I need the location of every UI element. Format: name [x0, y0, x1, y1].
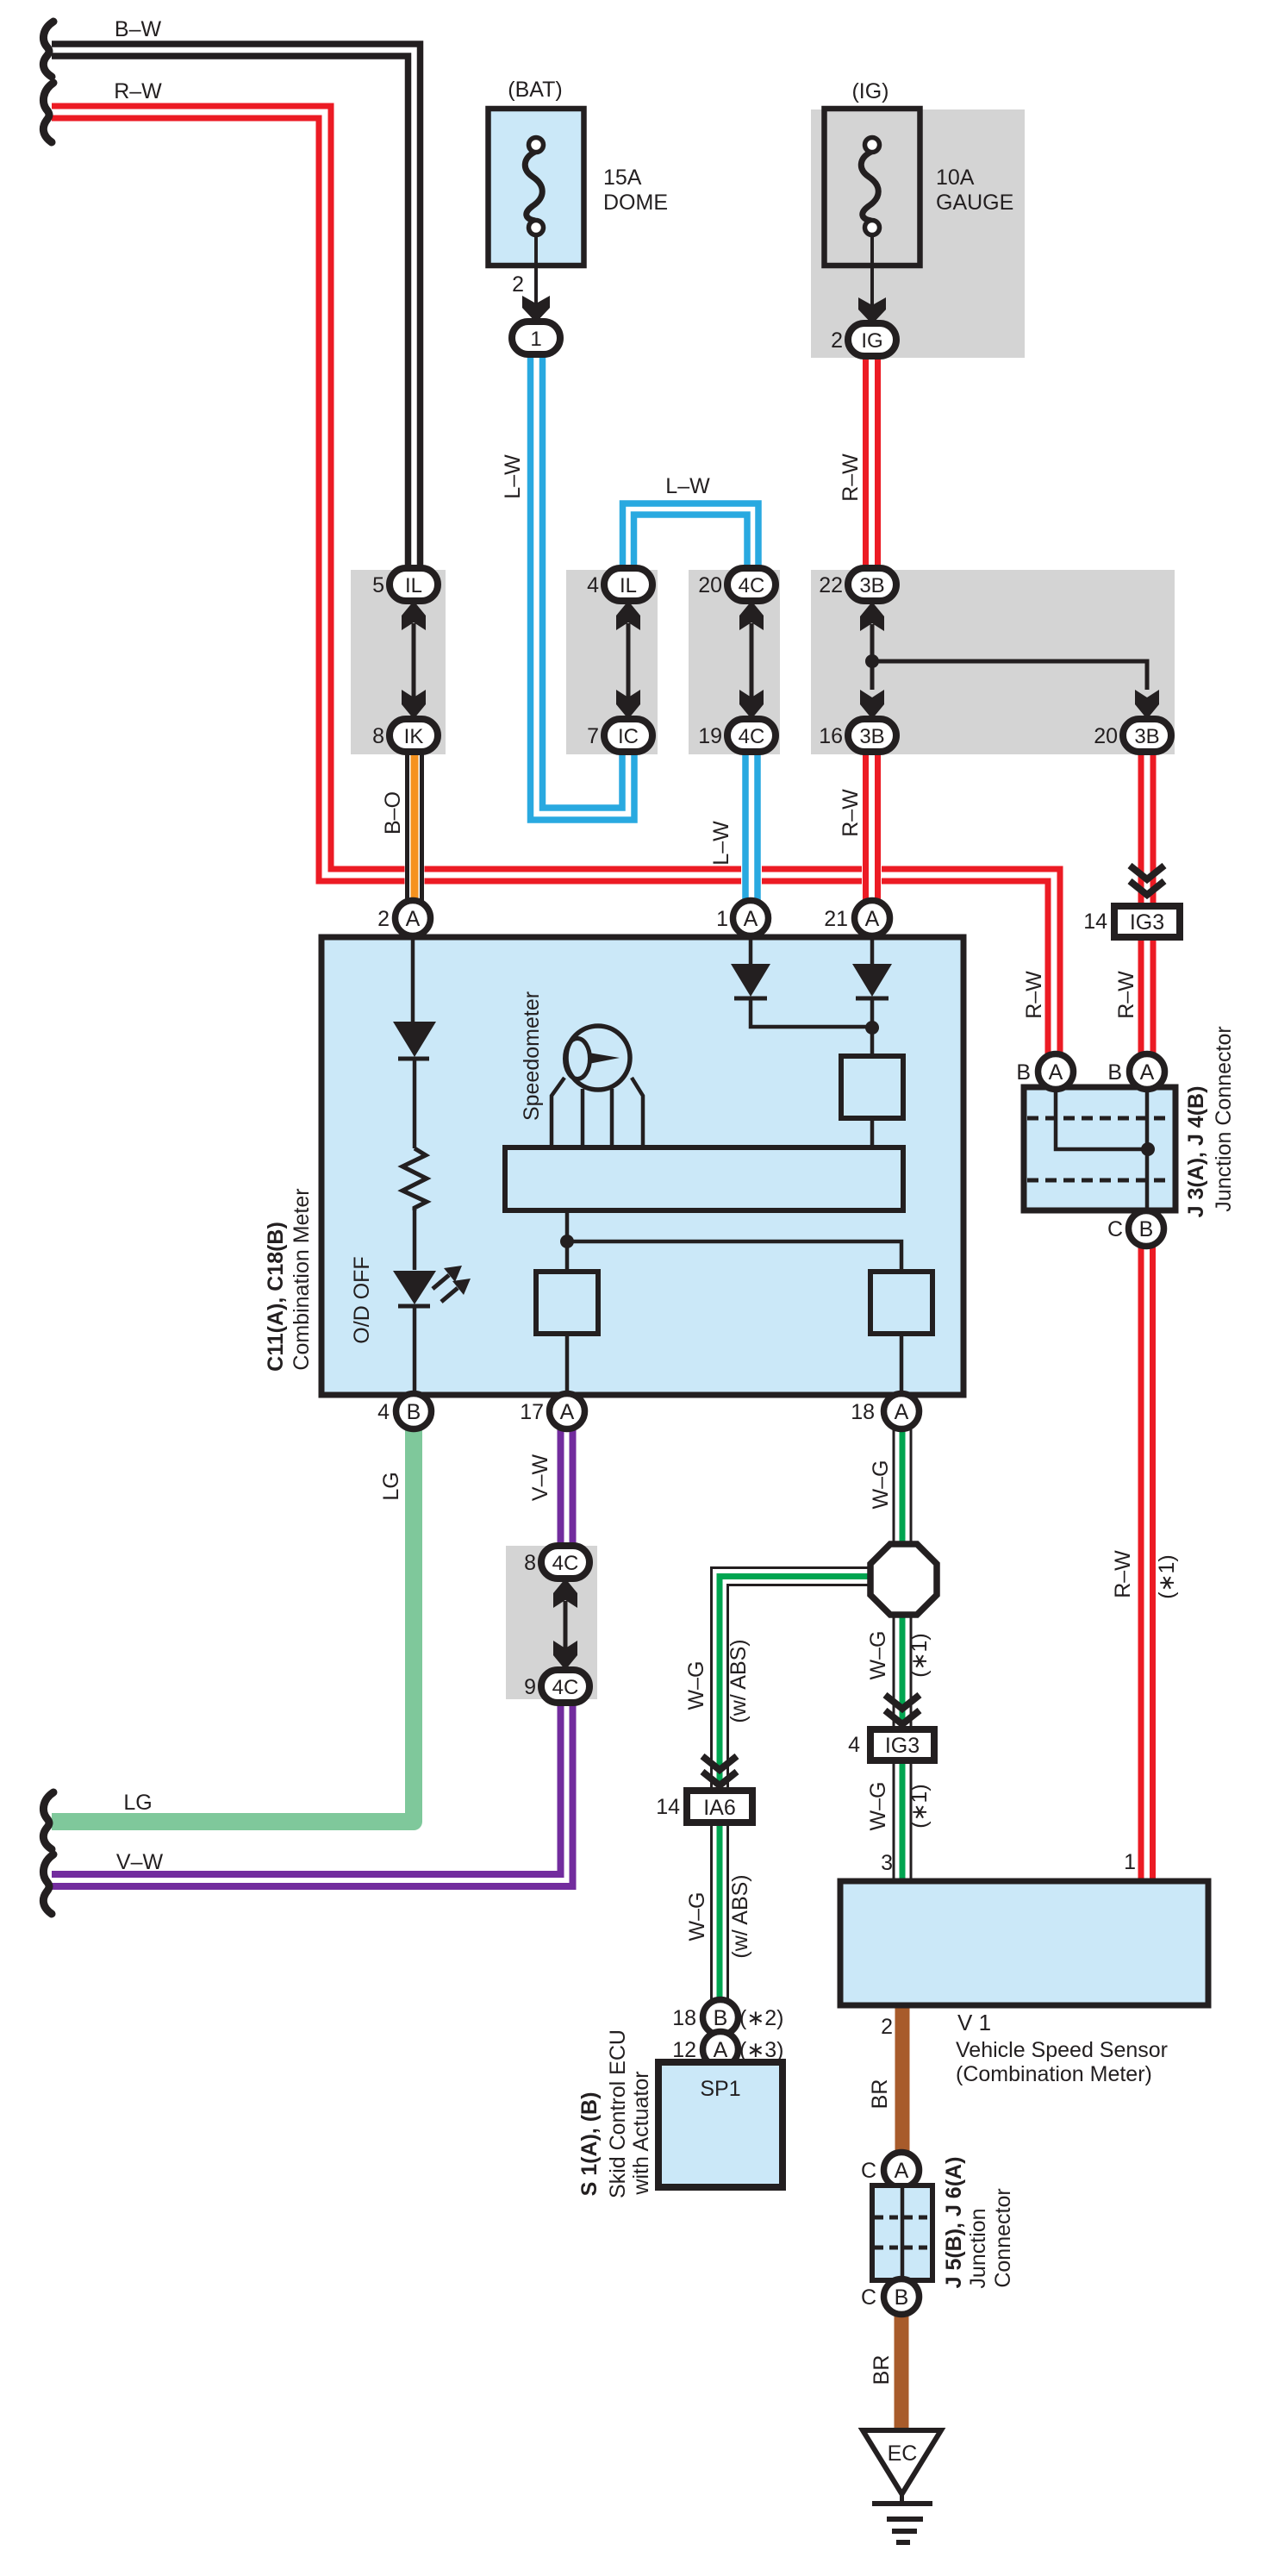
- connector 20 3B: [1123, 719, 1171, 752]
- brace wire break LG: [43, 1792, 53, 1849]
- svg-text:O/D OFF: O/D OFF: [350, 1256, 374, 1343]
- svg-text:A: A: [1049, 1060, 1063, 1085]
- svg-text:BR: BR: [870, 2355, 894, 2385]
- svg-text:GAUGE: GAUGE: [936, 191, 1013, 215]
- svg-text:Combination Meter: Combination Meter: [290, 1188, 314, 1370]
- svg-text:R–W: R–W: [1114, 971, 1138, 1019]
- meter pin 21 A: [855, 901, 890, 936]
- gray highlight box behind fuse (IG): [811, 109, 1025, 358]
- meter pin 18 A: [884, 1394, 920, 1429]
- svg-text:(∗1): (∗1): [1155, 1554, 1179, 1599]
- page-ref chevron above 14 IG3: [1130, 866, 1164, 879]
- svg-text:J 3(A), J 4(B): J 3(A), J 4(B): [1184, 1086, 1208, 1218]
- meter pin 4 B: [396, 1394, 432, 1429]
- svg-text:C11(A), C18(B): C11(A), C18(B): [264, 1222, 288, 1372]
- svg-text:R–W: R–W: [839, 789, 863, 837]
- svg-text:Speedometer: Speedometer: [520, 991, 544, 1121]
- connector 20 4C: [727, 568, 776, 601]
- brace wire break V-W: [43, 1854, 53, 1914]
- svg-text:15A: 15A: [603, 166, 642, 190]
- wire B-W pair from left brace down to connector 5 IL: [52, 44, 421, 570]
- wire meter pin 2A to diode D1: [411, 937, 415, 1022]
- svg-text:(Combination Meter): (Combination Meter): [956, 2062, 1152, 2086]
- svg-text:W–G: W–G: [866, 1782, 890, 1831]
- connector 16 3B: [848, 719, 896, 752]
- svg-text:5: 5: [372, 573, 384, 597]
- svg-text:IG3: IG3: [1130, 910, 1164, 935]
- wire V-W pair from connector 9 4C down then left to brace: [52, 1703, 573, 1886]
- wire resistor to LED: [413, 1210, 417, 1270]
- svg-text:18: 18: [851, 1400, 875, 1424]
- svg-text:18: 18: [672, 2006, 696, 2030]
- page-ref box 14 IG3: [1114, 906, 1180, 937]
- svg-text:DOME: DOME: [603, 191, 668, 215]
- svg-text:W–G: W–G: [866, 1631, 890, 1680]
- svg-text:L–W: L–W: [501, 454, 525, 499]
- diode D1 in meter illumination branch: [393, 1022, 436, 1057]
- svg-text:9: 9: [524, 1675, 536, 1699]
- connector 19 4C: [727, 719, 776, 752]
- svg-text:V 1: V 1: [957, 2010, 991, 2035]
- svg-text:4C: 4C: [739, 725, 765, 748]
- svg-text:C: C: [1107, 1217, 1123, 1241]
- svg-text:8: 8: [524, 1551, 536, 1575]
- svg-text:C: C: [861, 2159, 876, 2183]
- wire W-G branch from octagon left side down to skid control ECU pin 18 B: [712, 1568, 872, 2000]
- svg-text:(IG): (IG): [851, 79, 889, 103]
- svg-text:1: 1: [716, 907, 728, 931]
- svg-text:R–W: R–W: [1022, 971, 1046, 1019]
- svg-text:Junction: Junction: [966, 2208, 990, 2288]
- svg-text:Connector: Connector: [991, 2188, 1015, 2287]
- wire diode D2 to node J1: [751, 998, 872, 1027]
- svg-text:Skid Control ECU: Skid Control ECU: [606, 2029, 630, 2198]
- wire R-W pair from junction connector pin C(B) down to sensor V1 pin 1: [1138, 1247, 1144, 1881]
- gray highlight box behind connectors 8 4C / 9 4C: [506, 1546, 597, 1699]
- wire from fuse GAUGE to oval IG with arrow: [870, 266, 874, 312]
- combination meter C11(A) C18(B) box: [321, 937, 963, 1395]
- wire node J2 branch to block B3: [567, 1241, 901, 1272]
- junction connector pin B(A) left: [1038, 1054, 1074, 1090]
- svg-text:14: 14: [1083, 910, 1107, 934]
- svg-text:B–O: B–O: [381, 791, 405, 835]
- svg-text:(∗3): (∗3): [739, 2038, 784, 2062]
- diode D3 under pin 21A: [852, 964, 892, 997]
- meter block B3 lower right: [870, 1272, 932, 1334]
- svg-text:W–G: W–G: [685, 1892, 709, 1941]
- svg-text:2: 2: [831, 328, 843, 353]
- skid control ECU pin 18 B (*2): [703, 2000, 739, 2035]
- wire block B3 to meter pin 18A: [900, 1334, 904, 1396]
- svg-text:4: 4: [587, 573, 599, 597]
- svg-text:7: 7: [587, 724, 599, 748]
- svg-text:1: 1: [1124, 1850, 1136, 1874]
- wire circuit bar down with node J2: [565, 1210, 570, 1272]
- wire LG from meter pin 4 B down and left to brace: [52, 1429, 414, 1822]
- LED O/D OFF indicator: [393, 1271, 436, 1304]
- wire BR from junction connector J6 pin C(B) down to ground EC: [895, 2313, 909, 2433]
- wire from fuse DOME to oval 1 with arrow: [534, 266, 538, 312]
- svg-text:(w/ ABS): (w/ ABS): [728, 1874, 752, 1958]
- svg-text:IG3: IG3: [885, 1734, 920, 1758]
- gray highlight box behind connectors 20 4C / 19 4C: [689, 570, 780, 754]
- svg-text:22: 22: [819, 573, 843, 597]
- svg-text:8: 8: [372, 724, 384, 748]
- fuse 10A GAUGE (IG): [825, 109, 920, 266]
- svg-text:LG: LG: [379, 1472, 403, 1500]
- arrow pair between connectors 4 IL and 7 IC: [616, 601, 640, 630]
- junction connector pin C(B): [1129, 1211, 1164, 1247]
- meter block B2 lower left: [536, 1272, 598, 1334]
- wire block B2 to meter pin 17A: [565, 1334, 570, 1396]
- page-ref chevron above 4 IG3: [885, 1695, 920, 1709]
- arrow pair between connectors 8 4C and 9 4C: [553, 1579, 577, 1608]
- svg-text:(BAT): (BAT): [508, 78, 562, 102]
- page-ref box 14 IA6: [687, 1791, 752, 1823]
- wire W-G from meter pin 18 A down to noise-filter octagon: [893, 1429, 895, 1545]
- meter pin 17 A: [550, 1394, 585, 1429]
- svg-text:R–W: R–W: [1111, 1550, 1135, 1598]
- svg-text:3B: 3B: [1134, 725, 1159, 748]
- svg-text:20: 20: [698, 573, 722, 597]
- svg-text:(w/ ABS): (w/ ABS): [726, 1639, 751, 1723]
- svg-text:A: A: [895, 2159, 909, 2183]
- svg-text:4C: 4C: [739, 574, 765, 597]
- ground symbol bars: [900, 2494, 904, 2503]
- svg-text:A: A: [865, 907, 880, 931]
- svg-text:C: C: [861, 2285, 876, 2310]
- svg-text:Vehicle Speed Sensor: Vehicle Speed Sensor: [956, 2038, 1168, 2062]
- svg-text:3B: 3B: [859, 725, 884, 748]
- connector 5 IL: [390, 568, 438, 601]
- brace wire break R-W: [43, 83, 53, 142]
- speedometer gauge symbol: [566, 1026, 630, 1090]
- svg-text:A: A: [744, 907, 758, 931]
- wire diode D3 down to node J1: [870, 998, 875, 1056]
- svg-text:B: B: [1016, 1060, 1031, 1085]
- svg-text:2: 2: [881, 2015, 893, 2039]
- connector 7 IC: [604, 719, 652, 752]
- svg-text:17: 17: [520, 1400, 544, 1424]
- connector 9 4C: [541, 1670, 589, 1703]
- wire meter pin 21A to diode D3: [870, 937, 875, 964]
- svg-text:LG: LG: [123, 1791, 152, 1815]
- connector 4 IL: [604, 568, 652, 601]
- connector oval 1 below fuse DOME: [512, 322, 560, 354]
- brace wire break B-W: [43, 22, 53, 77]
- connector 22 3B: [848, 568, 896, 601]
- svg-text:2: 2: [512, 272, 524, 297]
- svg-text:R–W: R–W: [839, 453, 863, 502]
- svg-text:4C: 4C: [552, 1676, 579, 1699]
- svg-text:IC: IC: [618, 725, 639, 748]
- gray highlight box behind connectors 5 IL / 8 IK: [351, 570, 446, 754]
- svg-text:2: 2: [377, 907, 390, 931]
- skid control ECU pin 12 A (*3): [703, 2032, 739, 2067]
- svg-text:B–W: B–W: [115, 17, 162, 41]
- junction connector pin C(B) lower: [884, 2279, 920, 2315]
- meter pin 2 A: [396, 901, 431, 936]
- svg-text:W–G: W–G: [869, 1460, 893, 1510]
- meter internal circuit bar: [505, 1147, 903, 1210]
- svg-text:SP1: SP1: [700, 2077, 740, 2101]
- wire BR from sensor V1 pin 2 down to junction connector J5 pin C(A): [895, 2005, 910, 2154]
- wire L-W pair from connector 19 4C down to meter pin 1 A: [741, 753, 762, 902]
- wire V-W pair from meter pin 17 A down to connector 8 4C: [558, 1429, 564, 1547]
- svg-text:10A: 10A: [936, 166, 975, 190]
- svg-text:A: A: [1140, 1060, 1155, 1085]
- wire R-W pair from fuse GAUGE oval IG down to connector 22 3B: [863, 356, 869, 569]
- wire L-W loop from connector 4 IL up over to connector 20 4C: [623, 503, 759, 570]
- svg-text:J 5(B), J 6(A): J 5(B), J 6(A): [942, 2157, 966, 2289]
- svg-text:V–W: V–W: [116, 1850, 164, 1874]
- svg-text:A: A: [895, 1400, 909, 1424]
- gray highlight box behind connectors 4 IL / 7 IC: [566, 570, 658, 754]
- svg-text:S 1(A), (B): S 1(A), (B): [577, 2092, 602, 2197]
- svg-text:L–W: L–W: [665, 474, 710, 498]
- svg-text:B: B: [895, 2285, 909, 2310]
- wire LED to meter pin 4B: [413, 1305, 417, 1396]
- wire block B1 to circuit bar: [870, 1118, 875, 1147]
- svg-text:B: B: [407, 1400, 421, 1424]
- svg-text:IA6: IA6: [703, 1796, 736, 1820]
- connector 8 IK: [390, 719, 438, 752]
- svg-text:IG: IG: [861, 329, 882, 353]
- svg-text:W–G: W–G: [684, 1661, 708, 1710]
- gray highlight box behind connectors 22 3B / 16 3B / 20 3B: [811, 570, 1175, 754]
- wire diode D1 to resistor: [413, 1059, 417, 1148]
- svg-text:19: 19: [698, 724, 722, 748]
- svg-text:12: 12: [672, 2038, 696, 2062]
- svg-text:IK: IK: [404, 725, 424, 748]
- page-ref chevron above 14 IA6: [702, 1756, 737, 1770]
- wire B-O from connector 8 IK down to meter pin 2 A: [405, 753, 425, 902]
- svg-text:14: 14: [656, 1795, 680, 1819]
- svg-text:IL: IL: [405, 574, 422, 597]
- wire R-W pair from connector 16 3B down to meter pin 21 A: [862, 753, 882, 902]
- meter block B1 upper right: [841, 1056, 903, 1118]
- fuse 15A DOME (BAT): [489, 109, 584, 266]
- svg-text:(∗1): (∗1): [907, 1784, 932, 1829]
- arrow pair between connectors 20 4C and 19 4C: [739, 601, 764, 630]
- svg-text:L–W: L–W: [709, 821, 733, 866]
- connector 8 4C: [541, 1546, 589, 1579]
- svg-text:4C: 4C: [552, 1552, 579, 1575]
- wire L-W pair from fuse DOME oval 1 down and right up to connector 7 IC: [531, 353, 635, 820]
- J3/J4 internal dashed rows: [1027, 1116, 1172, 1121]
- resistor in meter illumination branch: [402, 1148, 427, 1210]
- svg-text:B: B: [714, 2006, 728, 2030]
- svg-text:20: 20: [1094, 724, 1118, 748]
- svg-text:BR: BR: [868, 2079, 892, 2110]
- node J1 junction dot: [865, 1021, 879, 1035]
- junction connector pin C(A): [884, 2153, 920, 2188]
- svg-text:B: B: [1139, 1217, 1154, 1241]
- wire R-W long run from left brace to junction connector J3 pin B(A): [52, 106, 1060, 1055]
- svg-text:1: 1: [530, 328, 541, 351]
- junction connector pin B(A) right: [1130, 1054, 1165, 1090]
- page-ref box 4 IG3: [870, 1729, 934, 1760]
- wire meter pin 1A to diode D2: [749, 937, 753, 964]
- svg-text:(∗1): (∗1): [907, 1633, 932, 1678]
- svg-text:R–W: R–W: [114, 79, 162, 103]
- wire R-W pair from connector 20 3B down through IG3 to junction connector J4 pin B(A): [1138, 753, 1144, 1055]
- speedometer legs to meter circuit: [552, 1078, 564, 1147]
- svg-text:EC: EC: [888, 2442, 918, 2466]
- meter pin 1 A: [733, 901, 769, 936]
- svg-text:A: A: [714, 2038, 728, 2062]
- svg-text:4: 4: [377, 1400, 390, 1424]
- svg-text:IL: IL: [620, 574, 637, 597]
- svg-text:16: 16: [819, 724, 843, 748]
- junction connector J5(B) J6(A) box: [872, 2185, 932, 2280]
- svg-text:V–W: V–W: [528, 1454, 552, 1502]
- arrows from connector 22 3B to 16 3B with branch to 20 3B: [860, 602, 884, 631]
- svg-text:B: B: [1107, 1060, 1122, 1085]
- node J2 junction dot: [560, 1235, 574, 1248]
- svg-text:4: 4: [848, 1733, 860, 1757]
- junction connector J3(A) J4(B) box: [1024, 1087, 1175, 1210]
- svg-text:A: A: [406, 907, 421, 931]
- skid control ECU SP1 box: [658, 2062, 783, 2187]
- wire W-G branch from octagon bottom down through IG3 to sensor V1 pin 3: [893, 1615, 895, 1881]
- ground EC triangle: [863, 2430, 941, 2494]
- svg-text:A: A: [560, 1400, 575, 1424]
- svg-text:3B: 3B: [859, 574, 884, 597]
- noise filter octagon: [870, 1544, 937, 1615]
- arrow pair between connectors 5 IL and 8 IK: [402, 601, 426, 630]
- svg-text:(∗2): (∗2): [739, 2006, 784, 2030]
- connector oval IG below fuse GAUGE: [848, 323, 896, 356]
- svg-text:21: 21: [824, 907, 848, 931]
- diode D2 under pin 1A: [731, 964, 770, 997]
- J3/J4 internal wiring: [1056, 1090, 1148, 1149]
- svg-text:Junction Connector: Junction Connector: [1212, 1026, 1236, 1211]
- svg-text:3: 3: [881, 1851, 893, 1875]
- svg-text:with Actuator: with Actuator: [629, 2071, 653, 2195]
- vehicle speed sensor V1 box: [840, 1881, 1208, 2005]
